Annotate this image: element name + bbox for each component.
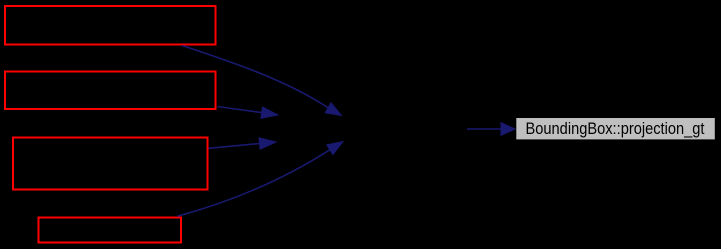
node box1 (red, top-left) <box>5 6 216 45</box>
node box3 (red, third) <box>13 138 208 190</box>
node box4 (red, bottom) <box>39 218 182 243</box>
node BoundingBox::projection_gt (gray) <box>516 118 715 139</box>
edge box3 to center node <box>209 138 277 149</box>
edge box1 to center node <box>182 46 342 116</box>
edge center node to BoundingBox::projection_gt <box>467 123 515 136</box>
edge box2 to center node <box>218 107 279 119</box>
svg-text:BoundingBox::projection_gt: BoundingBox::projection_gt <box>526 119 705 138</box>
node box2 (red, second) <box>5 72 216 110</box>
edge box4 to center node <box>178 142 344 217</box>
